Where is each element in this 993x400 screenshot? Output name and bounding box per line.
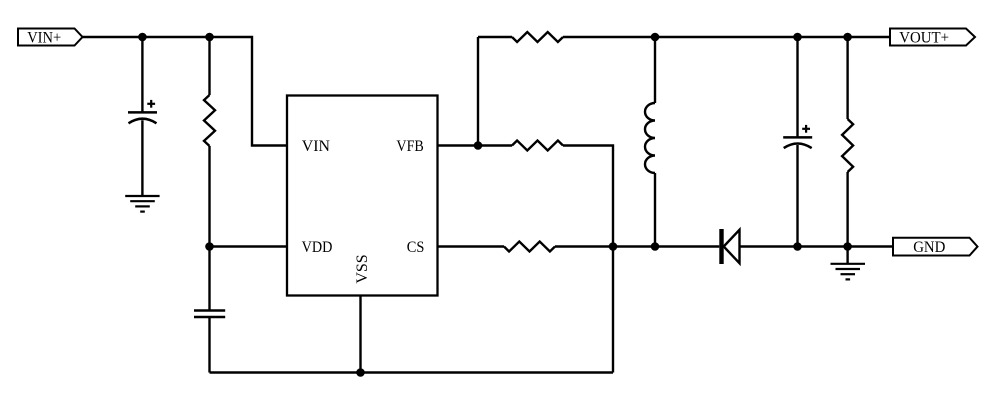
svg-text:CS: CS bbox=[407, 239, 425, 256]
svg-text:VFB: VFB bbox=[396, 138, 423, 155]
svg-text:VIN+: VIN+ bbox=[27, 29, 61, 46]
svg-text:GND: GND bbox=[913, 239, 945, 256]
svg-text:VOUT+: VOUT+ bbox=[899, 29, 949, 46]
svg-text:VDD: VDD bbox=[302, 239, 333, 256]
svg-text:VIN: VIN bbox=[302, 138, 331, 155]
svg-text:VSS: VSS bbox=[354, 254, 371, 283]
